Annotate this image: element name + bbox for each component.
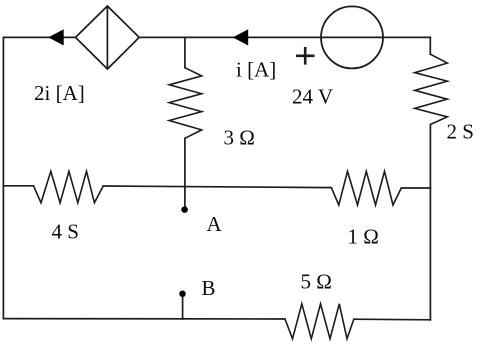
wire top-right segment [139,36,430,38]
resistor 1-ohm zigzag [331,171,401,205]
svg-text:A: A [207,212,223,236]
svg-text:B: B [202,276,216,300]
svg-text:2 S: 2 S [447,120,474,144]
resistor 4S zigzag [34,171,104,203]
current arrow 2i on top-left wire [48,29,63,45]
wire middle-left to 4S [3,185,33,187]
voltage source V1 circle [321,6,383,68]
resistor 2S zigzag [415,54,448,124]
dependent current source U1 diamond [76,6,140,69]
node B dot [179,291,186,298]
wire left side [2,37,4,318]
wire top-left segment [4,36,76,38]
wire 3-ohm top lead [184,37,186,67]
wire middle-right to right side [401,187,430,189]
wire node B stub [182,295,184,319]
svg-text:2i [A]: 2i [A] [34,81,85,105]
node A dot [181,206,188,213]
svg-text:4 S: 4 S [52,220,79,244]
wire right upper segment [429,37,431,54]
svg-text:24 V: 24 V [292,85,333,109]
svg-text:1 Ω: 1 Ω [348,225,379,249]
wire 3-ohm bottom lead to node A [184,138,186,208]
resistor 5-ohm zigzag [285,304,354,339]
svg-text:5 Ω: 5 Ω [301,270,332,294]
wire bottom left segment [4,318,286,320]
svg-text:i [A]: i [A] [236,58,276,82]
resistor 3-ohm zigzag [169,68,202,139]
current arrow i on top wire [233,29,248,45]
wire bottom right segment [354,318,431,321]
wire middle center segment [103,186,331,188]
wire right lower segment [429,125,431,320]
svg-text:3 Ω: 3 Ω [224,126,255,150]
plus sign of V1 [296,47,315,65]
